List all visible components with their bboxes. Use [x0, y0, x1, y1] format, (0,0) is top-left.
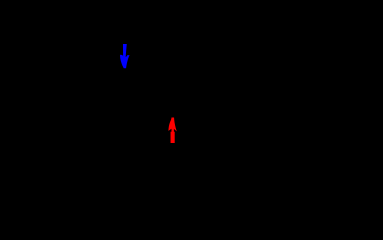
- resistor R1: [310, 85, 330, 110]
- conventional-current arrow I (red, pointing up): [168, 118, 176, 144]
- wire: bottom conductor: [60, 149, 320, 151]
- battery V1: [115, 95, 135, 101]
- wire: top conductor: [60, 39, 320, 41]
- electron-flow arrow (blue, pointing down): [120, 44, 130, 68]
- wire: right branch: [319, 40, 321, 150]
- wire: left branch of circuit loop (invisible black on black): [59, 40, 61, 150]
